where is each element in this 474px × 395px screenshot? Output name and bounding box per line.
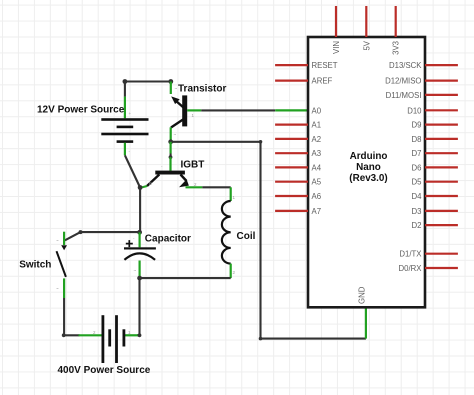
label Coil (237, 231, 256, 242)
svg-text:Nano: Nano (356, 162, 381, 173)
pin A3 (275, 149, 321, 158)
pin GND label (358, 286, 367, 304)
label Transistor (178, 84, 226, 95)
pin A2 (275, 135, 321, 144)
svg-text:3V3: 3V3 (392, 41, 401, 55)
label 400V Power Source (58, 365, 151, 376)
pin VIN (332, 6, 341, 54)
pin D13/SCK (389, 61, 458, 70)
svg-text:~: ~ (134, 268, 137, 273)
pin D9 (412, 121, 458, 130)
switch S1 (56, 232, 67, 298)
pin D8 (412, 135, 458, 144)
node corner emitter rail bottom (259, 337, 263, 341)
pin D7 (412, 149, 458, 158)
pin D5 (412, 178, 458, 187)
pin GND stub (green) (365, 307, 367, 338)
svg-text:Coil: Coil (237, 231, 256, 242)
label Capacitor (145, 234, 191, 245)
svg-text:D2: D2 (412, 221, 422, 230)
svg-text:D8: D8 (412, 135, 422, 144)
battery B2 400V Power Source (93, 315, 131, 363)
svg-text:400V Power Source: 400V Power Source (58, 365, 151, 376)
wire transistor base to Arduino A0 (201, 109, 275, 111)
wire junction to IGBT gate (170, 142, 172, 157)
inductor L1 Coil (222, 187, 236, 278)
pin A0 stub (green, connected) (275, 109, 308, 111)
pin D0/RX (399, 264, 458, 273)
wire switch bottom to battery 400V (64, 298, 79, 335)
svg-text:(Rev3.0): (Rev3.0) (349, 173, 387, 184)
svg-text:A0: A0 (312, 106, 322, 115)
pin A4 (275, 163, 322, 172)
svg-text:A1: A1 (312, 121, 322, 130)
node corner emitter rail top (259, 140, 263, 144)
svg-text:~: ~ (174, 132, 177, 137)
label Switch (19, 260, 51, 271)
svg-text:RESET: RESET (312, 61, 338, 70)
svg-text:+: + (129, 111, 132, 116)
pin A1 (275, 121, 321, 130)
pin D12/MISO (385, 77, 458, 86)
node capacitor top junction (137, 230, 142, 235)
svg-text:A5: A5 (312, 178, 322, 187)
svg-text:Arduino: Arduino (350, 151, 388, 162)
pin D4 (412, 192, 458, 201)
svg-text:A2: A2 (312, 135, 322, 144)
pin D3 (412, 207, 458, 216)
svg-text:D1/TX: D1/TX (399, 250, 422, 259)
svg-text:~: ~ (56, 286, 59, 291)
svg-text:A4: A4 (312, 163, 322, 172)
pin D10 (407, 106, 458, 115)
IC U1 Arduino Nano (Rev3.0) (308, 37, 425, 307)
wire junction down to capacitor (139, 188, 141, 233)
label 12V Power Source (37, 105, 125, 116)
svg-text:IGBT: IGBT (181, 160, 205, 171)
svg-text:D3: D3 (412, 207, 422, 216)
label IGBT (181, 160, 205, 171)
pin 5V (362, 6, 371, 51)
pin IGBT gate stub (169, 157, 171, 171)
svg-text:D0/RX: D0/RX (399, 264, 423, 273)
svg-text:Switch: Switch (19, 260, 51, 271)
svg-text:D4: D4 (412, 192, 423, 201)
svg-text:D11/MOSI: D11/MOSI (386, 91, 422, 100)
node transistor emitter junction (168, 139, 173, 144)
svg-text:~: ~ (56, 238, 59, 243)
svg-text:Transistor: Transistor (178, 84, 226, 95)
node IGBT gate bendpoint (169, 155, 173, 159)
node switch wire bendpoint (79, 230, 83, 234)
svg-text:A7: A7 (312, 207, 322, 216)
node corner battery-capacitor (138, 333, 142, 337)
IGBT Q2 (142, 164, 203, 188)
pin D11/MOSI (386, 91, 458, 100)
svg-text:A3: A3 (312, 149, 322, 158)
wire 12V negative to IGBT junction (125, 155, 140, 187)
svg-text:VIN: VIN (332, 41, 341, 54)
svg-text:GND: GND (358, 286, 367, 304)
node corner 12V+ (123, 79, 128, 84)
svg-text:12V Power Source: 12V Power Source (37, 105, 125, 116)
node transistor collector top (168, 79, 173, 84)
wire coil bottom to capacitor bottom (140, 277, 231, 279)
pin 3V3 top (392, 6, 401, 55)
node IGBT collector junction (138, 185, 143, 190)
battery B1 12V Power Source (101, 97, 148, 156)
pin D6 (412, 163, 458, 172)
pin battery400 positive stub (124, 334, 140, 336)
wire capacitor bottom down to battery 400V (137, 278, 140, 335)
pin A7 (275, 207, 321, 216)
pin A5 (275, 178, 322, 187)
wire IGBT emitter to coil top (202, 186, 230, 188)
wire 12V positive rail (125, 82, 171, 97)
pin D2 (412, 221, 458, 230)
node corner switch-battery (62, 333, 66, 337)
pin RESET (275, 61, 338, 70)
wire emitter junction to GND rail (171, 142, 366, 339)
svg-text:D10: D10 (407, 106, 422, 115)
wire switch top to capacitor top (65, 232, 140, 240)
svg-text:AREF: AREF (312, 77, 333, 86)
transistor Q1 (171, 82, 202, 141)
pin A6 (275, 192, 321, 201)
svg-text:5V: 5V (362, 40, 371, 50)
pin AREF (275, 77, 332, 86)
pin A0 label (312, 106, 322, 115)
svg-text:A6: A6 (312, 192, 322, 201)
svg-text:D9: D9 (412, 121, 422, 130)
svg-text:Capacitor: Capacitor (145, 234, 191, 245)
pin battery400 negative stub (79, 334, 104, 336)
svg-text:E: E (149, 181, 152, 186)
capacitor C1 (124, 232, 156, 278)
node capacitor bottom junction (137, 276, 142, 281)
svg-text:D6: D6 (412, 163, 422, 172)
svg-text:D13/SCK: D13/SCK (389, 61, 422, 70)
pin D1/TX (399, 250, 458, 259)
svg-text:D12/MISO: D12/MISO (385, 77, 421, 86)
svg-text:D5: D5 (412, 178, 423, 187)
svg-text:D7: D7 (412, 149, 422, 158)
